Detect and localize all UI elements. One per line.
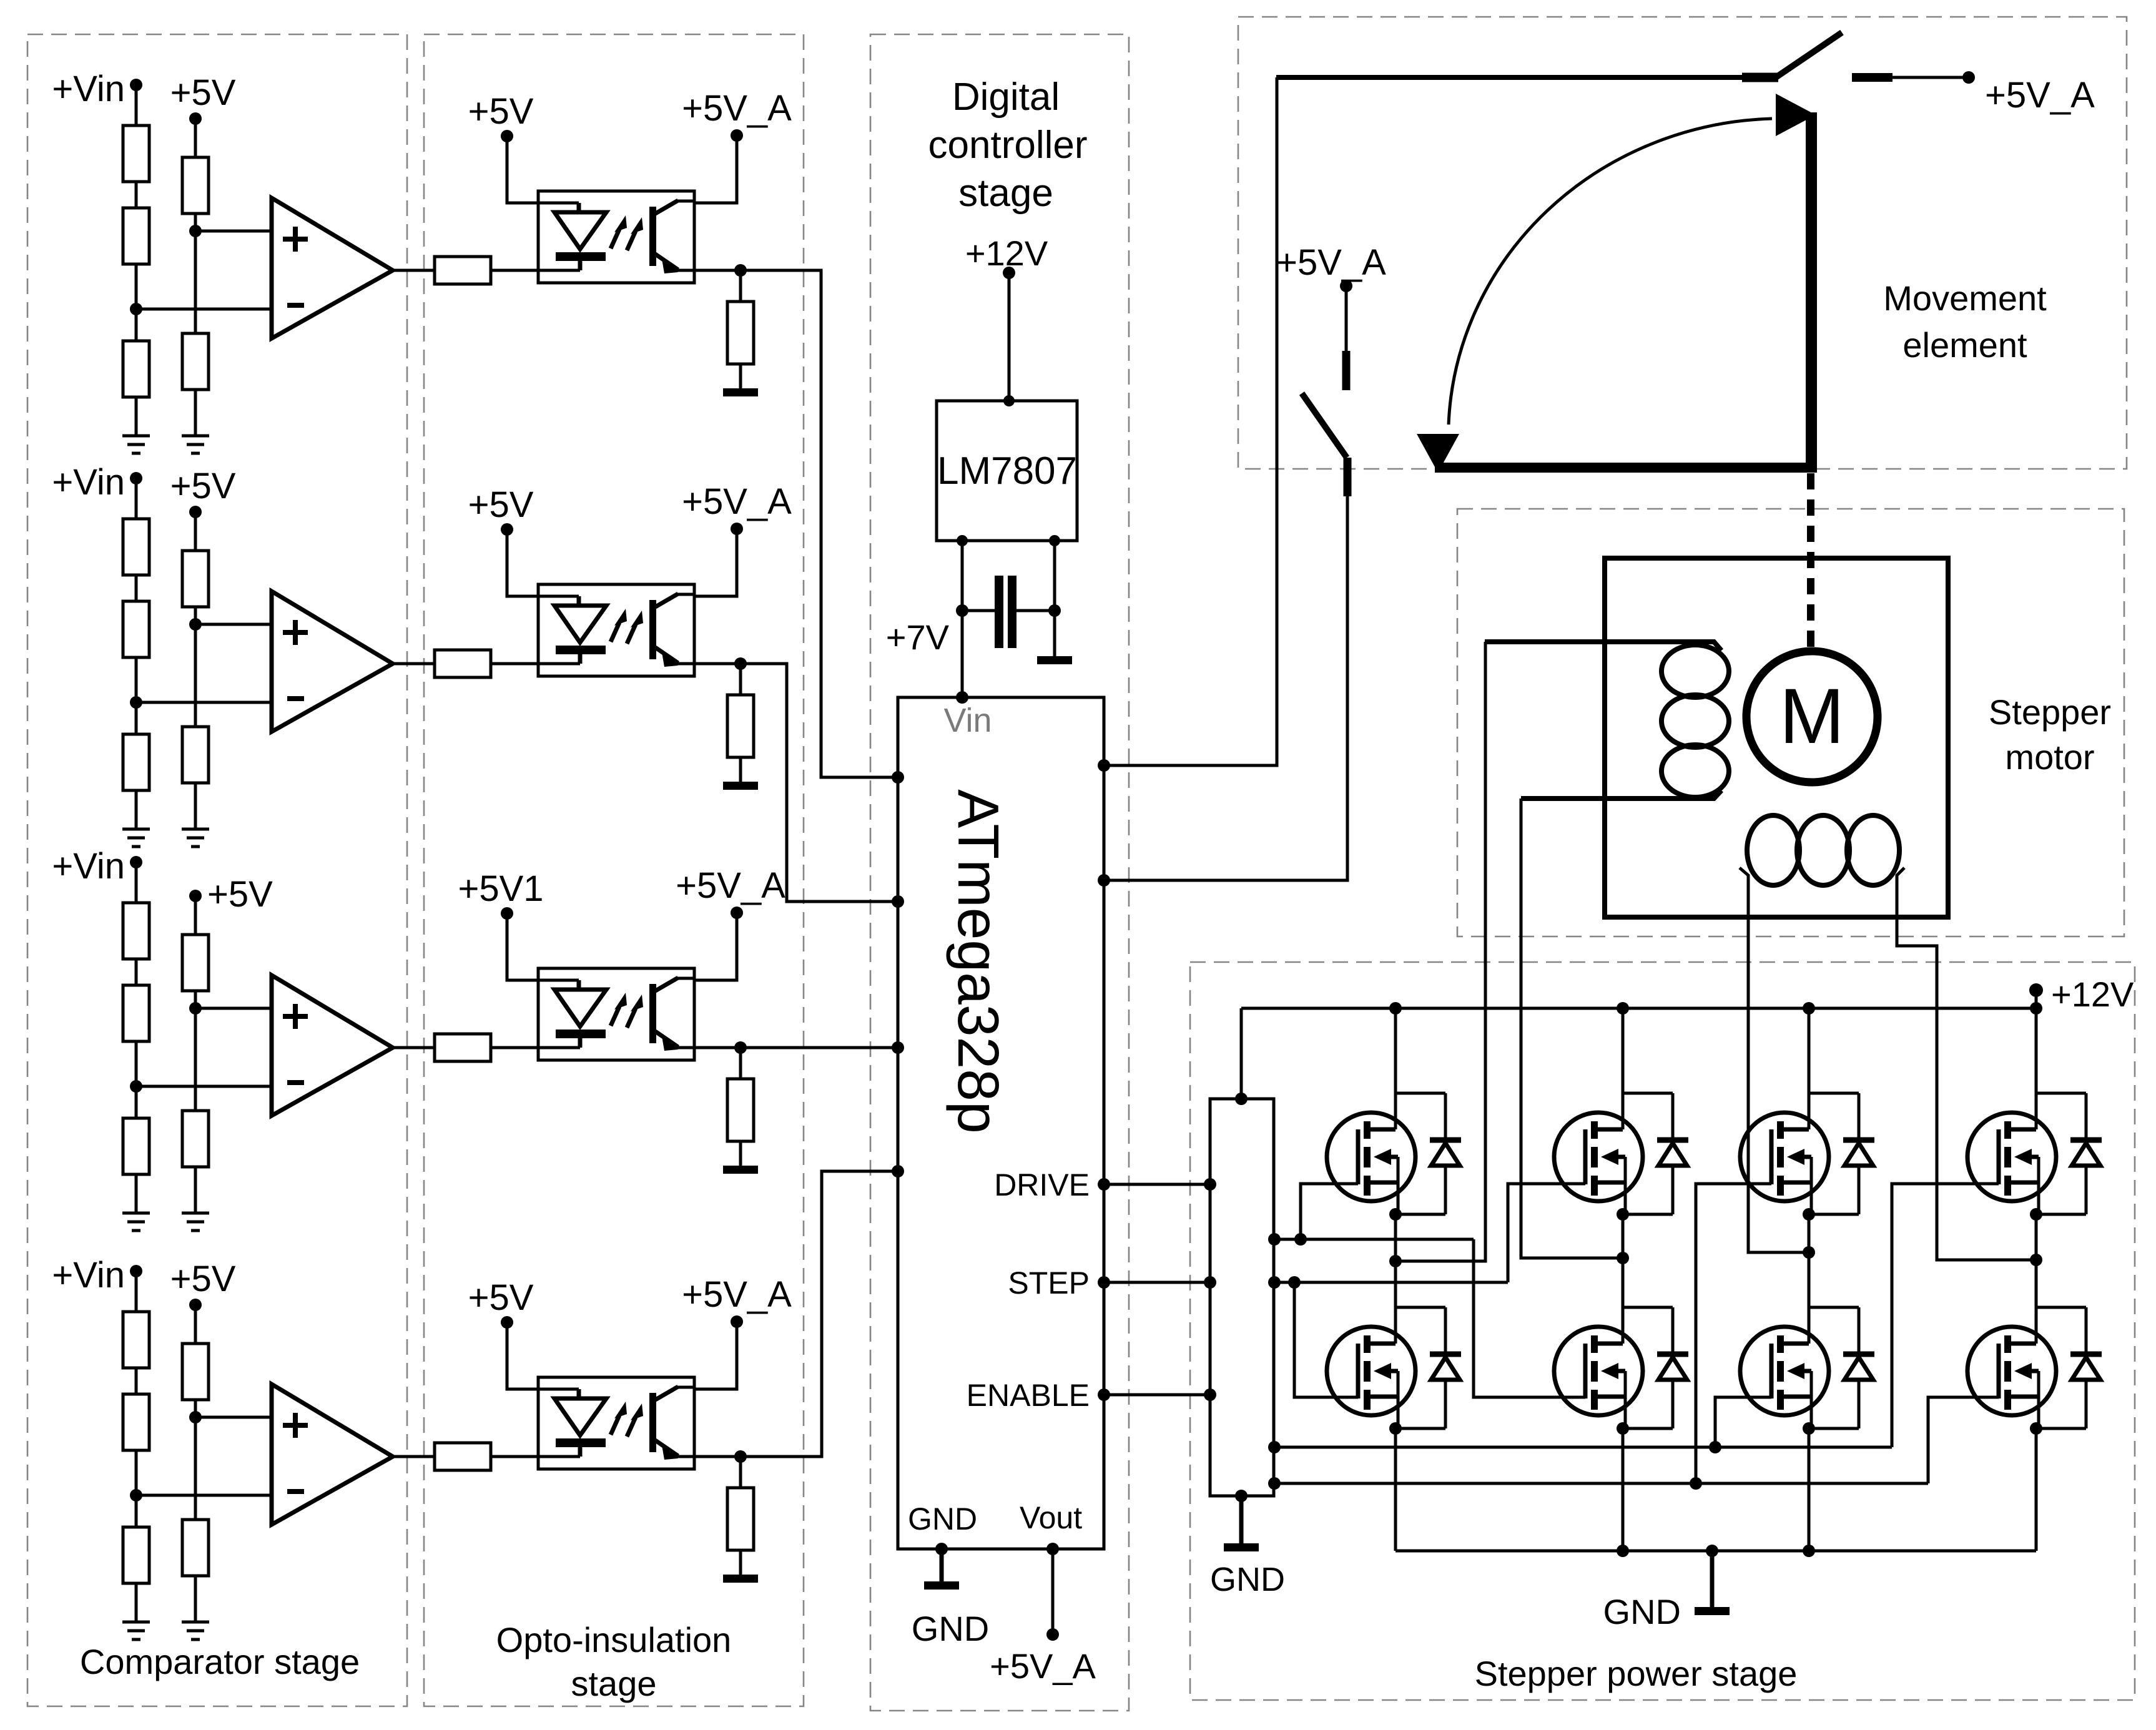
- svg-text:+5V_A: +5V_A: [676, 865, 785, 906]
- svg-text:GND: GND: [1210, 1561, 1285, 1598]
- svg-text:+5V_A: +5V_A: [682, 481, 792, 522]
- svg-text:Stepper: Stepper: [1989, 692, 2111, 732]
- svg-text:+5V: +5V: [170, 72, 236, 113]
- svg-text:stage: stage: [958, 172, 1053, 215]
- svg-text:Stepper power stage: Stepper power stage: [1475, 1654, 1798, 1693]
- svg-text:ENABLE: ENABLE: [967, 1378, 1090, 1413]
- svg-text:motor: motor: [2005, 737, 2094, 777]
- svg-text:Opto-insulation: Opto-insulation: [496, 1620, 732, 1659]
- svg-text:+5V_A: +5V_A: [990, 1646, 1096, 1686]
- svg-text:+12V: +12V: [2051, 975, 2134, 1014]
- svg-text:element: element: [1902, 325, 2027, 365]
- svg-text:+5V_A: +5V_A: [682, 88, 792, 129]
- svg-text:ATmega328p: ATmega328p: [946, 789, 1011, 1133]
- svg-text:+5V: +5V: [170, 466, 236, 506]
- svg-text:+5V: +5V: [468, 484, 534, 525]
- svg-text:+5V: +5V: [468, 91, 534, 132]
- svg-text:LM7807: LM7807: [937, 450, 1077, 493]
- svg-text:+5V_A: +5V_A: [1276, 242, 1386, 283]
- svg-text:+5V_A: +5V_A: [1985, 75, 2095, 115]
- svg-text:DRIVE: DRIVE: [994, 1167, 1090, 1202]
- svg-text:STEP: STEP: [1008, 1266, 1090, 1300]
- svg-text:+7V: +7V: [886, 617, 950, 657]
- svg-text:stage: stage: [571, 1664, 657, 1703]
- svg-text:Movement: Movement: [1883, 278, 2047, 318]
- svg-text:Vin: Vin: [943, 702, 992, 739]
- svg-text:GND: GND: [1603, 1592, 1681, 1631]
- svg-text:+5V: +5V: [468, 1277, 534, 1318]
- svg-text:+5V: +5V: [207, 874, 273, 915]
- svg-text:M: M: [1779, 673, 1844, 760]
- svg-text:+5V: +5V: [170, 1259, 236, 1299]
- svg-text:Vout: Vout: [1020, 1500, 1082, 1535]
- svg-text:GND: GND: [912, 1609, 989, 1648]
- svg-text:controller: controller: [928, 124, 1088, 167]
- svg-text:+12V: +12V: [965, 233, 1048, 273]
- svg-text:Comparator stage: Comparator stage: [80, 1642, 360, 1681]
- svg-text:GND: GND: [908, 1501, 977, 1536]
- svg-text:+5V_A: +5V_A: [682, 1274, 792, 1315]
- svg-text:Digital: Digital: [952, 76, 1060, 119]
- svg-text:+5V1: +5V1: [458, 868, 543, 909]
